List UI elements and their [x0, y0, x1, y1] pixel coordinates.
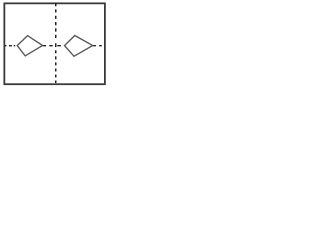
horizontal dashed line right segment dashes — [93, 45, 102, 47]
vertical dashed mirror line (upper part) — [55, 3, 57, 41]
border frame rectangle — [4, 3, 105, 84]
vertical dashed line crossing dash — [55, 43, 57, 47]
right quadrilateral shape (translated copy) — [65, 36, 93, 57]
horizontal dashed line left segment dashes — [5, 45, 15, 47]
left quadrilateral shape — [17, 36, 42, 56]
vertical dashed mirror line (lower part) — [55, 50, 57, 83]
background — [0, 0, 108, 88]
horizontal dashed line middle segment dashes — [43, 45, 61, 47]
